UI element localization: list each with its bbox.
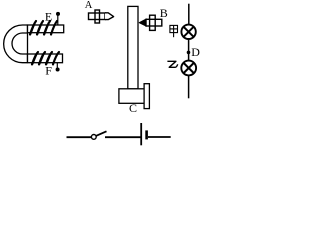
node D dot [187,51,191,55]
stand C vertical bar [128,6,138,89]
svg-text:E: E [45,10,52,24]
wire from E dot to top arm [57,14,59,25]
svg-text:A: A [85,0,93,11]
lamp yi [181,61,196,76]
wire below lamp yi [188,75,190,98]
electromagnet bottom arm bar [28,54,63,63]
wire above lamp jia [188,4,190,25]
wire from bottom arm to F dot [56,63,58,70]
switch pivot [91,135,96,140]
terminal dot E [56,12,60,16]
nail A head [95,10,100,23]
bottom wire left of switch [67,136,92,138]
svg-text:C: C [129,101,137,115]
nail A body [89,13,106,20]
switch blade [96,131,106,136]
bottom wire right of battery [148,136,171,138]
electromagnet U-core bend [4,25,28,63]
svg-text:B: B [160,6,168,20]
battery long plate [140,123,142,145]
nail A tip [105,13,114,20]
label yi [167,61,177,67]
coil on top arm [30,21,57,35]
wire between lamps [188,38,190,60]
nail B head [150,15,156,30]
nail B body [146,19,162,26]
svg-text:F: F [45,64,52,78]
label jia [170,25,178,37]
coil on bottom arm [32,52,59,64]
battery short plate [145,130,148,139]
svg-text:D: D [191,45,200,59]
stand C base [119,89,144,104]
electromagnet top arm bar [28,25,64,33]
stand C end cap [144,84,149,109]
terminal dot F [56,68,60,72]
wire from switch to battery [105,136,141,138]
nail B tip [139,19,146,26]
lamp jia [181,25,195,39]
